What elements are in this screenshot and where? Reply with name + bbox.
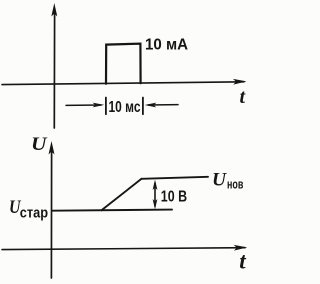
bottom graph horizontal axis (time axis)	[2, 248, 245, 250]
duration left tick bar	[105, 98, 107, 115]
duration dimension right arrow line	[148, 104, 178, 106]
10 V dimension arrow shaft	[154, 183, 156, 206]
top graph vertical axis arrowhead	[51, 3, 57, 17]
bottom graph vertical axis (voltage axis)	[50, 152, 52, 278]
10 V top arrowhead	[153, 180, 158, 190]
duration left arrowhead	[93, 103, 105, 108]
duration right arrowhead	[145, 103, 157, 108]
svg-text:U: U	[31, 134, 48, 155]
svg-text:10 В: 10 В	[161, 189, 187, 206]
bottom graph vertical axis arrowhead	[49, 141, 55, 155]
U_nov new level line	[142, 177, 209, 179]
top graph horizontal axis arrowhead	[233, 79, 247, 85]
top graph horizontal axis (time axis)	[2, 82, 244, 85]
svg-text:10 мс: 10 мс	[109, 99, 141, 116]
current pulse 10 mA	[106, 44, 141, 84]
svg-text:стар: стар	[20, 205, 48, 222]
voltage ramp	[102, 179, 142, 210]
U_star old level line	[52, 210, 172, 211]
top graph vertical axis (current axis)	[53, 14, 55, 128]
10 V bottom arrowhead	[153, 199, 158, 209]
svg-text:U: U	[212, 169, 227, 190]
svg-text:t: t	[239, 249, 246, 274]
duration right tick bar	[142, 98, 144, 115]
svg-text:10 мА: 10 мА	[145, 36, 188, 53]
duration dimension left arrow line	[66, 104, 101, 106]
svg-text:нов: нов	[227, 176, 243, 191]
bottom graph horizontal axis arrowhead	[234, 245, 248, 251]
